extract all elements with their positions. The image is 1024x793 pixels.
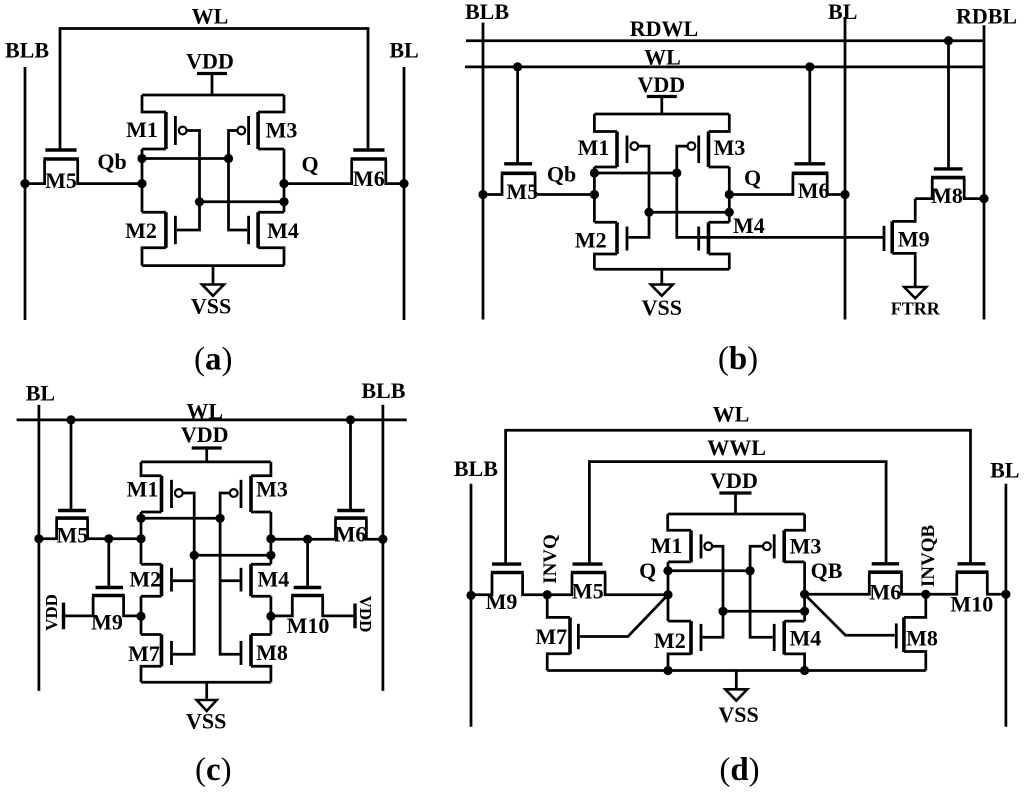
svg-text:M4: M4 (258, 567, 290, 592)
caption (d) (719, 752, 759, 788)
wire WL to M6 gate (b) (808, 67, 811, 164)
power VDD (b) (647, 97, 677, 115)
transistor M3 (d) (763, 514, 805, 562)
wire top rail (d) (668, 513, 805, 516)
wire top rail (b) (594, 113, 729, 116)
junction Q-A (d) (663, 566, 672, 575)
node INVQ (d) (543, 590, 552, 599)
junction BLB-M5 (b) (478, 190, 487, 199)
svg-text:BL: BL (990, 458, 1019, 483)
transistor M3 (c) (230, 462, 271, 512)
svg-text:M6: M6 (353, 166, 385, 191)
gate net M3-M4 (d) (750, 546, 773, 637)
svg-text:VSS: VSS (186, 709, 226, 734)
wire cross-coupling A (b) (594, 172, 676, 175)
transistor M4 (a) (249, 212, 284, 265)
svg-text:WL: WL (192, 4, 229, 29)
label BL (a) (389, 38, 418, 63)
wire WL (b) (465, 66, 984, 69)
label M7 (c) (128, 641, 160, 666)
label M3 (a) (266, 118, 298, 143)
label BL (b) (828, 0, 857, 24)
junction Qb-M5 (a) (137, 179, 146, 188)
svg-text:BL: BL (26, 381, 55, 406)
label VDD (d) (710, 468, 758, 493)
label VSS (c) (186, 709, 226, 734)
label M8 (c) (256, 640, 288, 665)
transistor M5 (b) (483, 164, 594, 195)
svg-text:VDD: VDD (181, 422, 229, 447)
transistor M9 (c) (64, 539, 142, 616)
junction gateR-A (b) (672, 168, 681, 177)
node Qb wire (b) (593, 167, 596, 222)
junction RDWL-M8gate (b) (944, 36, 953, 45)
label M3 (d) (790, 533, 822, 558)
junction Q-B (b) (725, 208, 734, 217)
junction gateR-A (c) (216, 514, 225, 523)
svg-text:M8: M8 (256, 640, 288, 665)
label M8 (d) (906, 625, 938, 650)
wire RDWL to M8 gate (b) (947, 41, 950, 169)
caption (c) (195, 752, 232, 788)
power VDD (c) (192, 448, 222, 462)
label M2 (d) (654, 628, 686, 653)
label M8 (b) (931, 183, 963, 208)
svg-text:M4: M4 (790, 625, 822, 650)
wire top rail (a) (142, 94, 284, 97)
wire BL (b) (844, 17, 847, 320)
svg-text:BL: BL (828, 0, 857, 24)
label M3 (c) (256, 477, 288, 502)
junction M10gate (c) (303, 535, 312, 544)
svg-text:M6: M6 (335, 522, 367, 547)
label M2 (b) (575, 228, 607, 253)
label BLB (b) (465, 0, 509, 24)
svg-text:M5: M5 (506, 179, 538, 204)
wire BLB (c) (382, 405, 385, 691)
wire cross-coupling B (d) (723, 610, 805, 613)
transistor M6 (a) (284, 150, 404, 184)
svg-text:VDD: VDD (710, 468, 758, 493)
svg-text:INVQB: INVQB (918, 525, 939, 588)
junction BL-M6 (a) (399, 179, 408, 188)
wire BLB (d) (470, 484, 473, 727)
node Q wire (a) (283, 149, 286, 212)
junction Q-M6 (b) (725, 190, 734, 199)
label M1 (a) (126, 117, 158, 142)
caption (b) (718, 341, 758, 377)
junction BL-M5 (c) (34, 534, 43, 543)
svg-text:BL: BL (389, 38, 418, 63)
label M7 (d) (535, 624, 567, 649)
gate net M1-M2 (b) (629, 146, 649, 237)
junction RDBL-M8 (b) (979, 194, 988, 203)
junction Qb-A (a) (137, 154, 146, 163)
svg-text:M3: M3 (266, 118, 298, 143)
svg-text:VSS: VSS (191, 294, 231, 319)
gate net M1-M2 (d) (703, 546, 724, 637)
label RDWL (b) (630, 16, 698, 41)
node QB wire (d) (803, 562, 806, 621)
transistor M6 (d) (805, 564, 926, 595)
transistor M1 (a) (142, 95, 187, 149)
transistor M2 (c) (141, 564, 194, 596)
wire cross-coupling A (a) (142, 157, 229, 160)
transistor M5 (c) (39, 511, 141, 539)
label M9 (b) (898, 227, 930, 252)
svg-text:M6: M6 (798, 178, 830, 203)
gate wire M7 diagonal (d) (580, 595, 668, 637)
ground VSS (d) (725, 671, 747, 701)
svg-text:WL: WL (644, 45, 681, 70)
svg-text:M5: M5 (45, 168, 77, 193)
label WL (a) (192, 4, 229, 29)
transistor M3 (a) (237, 95, 284, 149)
label M5 (d) (572, 579, 604, 604)
svg-text:M1: M1 (651, 533, 683, 558)
svg-text:M8: M8 (906, 625, 938, 650)
label BLB (a) (5, 38, 49, 63)
transistor M2 (a) (142, 212, 175, 265)
junction rail-M4 (d) (800, 666, 809, 675)
label M6 (d) (869, 579, 901, 604)
transistor M4 (c) (220, 564, 271, 596)
junction M9gate (c) (104, 534, 113, 543)
svg-text:VDD: VDD (637, 72, 685, 97)
node Q wire (d) (667, 562, 670, 621)
svg-text:M7: M7 (128, 641, 160, 666)
transistor M6 (c) (271, 511, 383, 540)
wire RDWL (b) (466, 39, 984, 42)
node Qb wire (c) (140, 512, 143, 564)
power VDD bar M10 (c) (353, 604, 356, 629)
caption (a) (194, 342, 233, 378)
label Q (d) (639, 558, 656, 583)
ground FTRR arrow (b) (904, 287, 926, 298)
svg-text:RDWL: RDWL (630, 16, 698, 41)
junction WL-M6gate (b) (805, 62, 814, 71)
gate net M3-M4 (a) (229, 131, 248, 231)
label VDD (c) (181, 422, 229, 447)
junction Q-B (a) (279, 197, 288, 206)
junction Q-B (c) (266, 551, 275, 560)
label FTRR (b) (891, 299, 941, 319)
svg-text:Qb: Qb (97, 149, 126, 174)
svg-text:M3: M3 (714, 135, 746, 160)
transistor M7 (c) (141, 635, 172, 683)
svg-text:WWL: WWL (707, 435, 766, 460)
svg-text:QB: QB (811, 558, 843, 583)
svg-text:FTRR: FTRR (891, 299, 941, 319)
gate wire M8 diagonal (d) (805, 594, 895, 635)
transistor M8 (c) (241, 635, 271, 683)
transistor M4 (b) (699, 222, 730, 269)
wire cross-coupling B (a) (200, 200, 285, 203)
label BL (d) (990, 458, 1019, 483)
junction BLB-M9 (d) (466, 591, 475, 600)
transistor M8 (d) (896, 594, 926, 670)
svg-text:M8: M8 (931, 183, 963, 208)
transistor M4 (d) (774, 621, 804, 670)
wire BL (a) (403, 67, 406, 320)
wire cross-coupling A (d) (668, 569, 750, 572)
label VSS (a) (191, 294, 231, 319)
wire WWL (d) (589, 462, 886, 564)
power VDD (a) (197, 74, 227, 96)
label M1 (d) (651, 533, 683, 558)
svg-text:BLB: BLB (361, 378, 405, 403)
wire BLB (b) (482, 23, 485, 320)
label M5 (b) (506, 179, 538, 204)
label VSS (b) (642, 295, 682, 320)
transistor M2 (d) (668, 621, 701, 670)
transistor M6 (b) (729, 164, 845, 195)
node M4-M8 wire (c) (270, 596, 273, 634)
svg-text:M3: M3 (256, 477, 288, 502)
junction WL-M5gate (c) (66, 415, 75, 424)
label M6 (b) (798, 178, 830, 203)
transistor M9 (d) (471, 564, 547, 595)
wire bottom rail (a) (142, 264, 284, 267)
label M5 (c) (57, 523, 89, 548)
label M6 (a) (353, 166, 385, 191)
svg-text:VSS: VSS (642, 295, 682, 320)
gate net M3-M4-M8 (c) (220, 493, 239, 654)
label Q (b) (744, 165, 761, 190)
label M3 (b) (714, 135, 746, 160)
power VDD bar M9 (c) (62, 603, 65, 630)
svg-text:(d): (d) (719, 752, 759, 788)
label BLB (c) (361, 378, 405, 403)
transistor M10 (d) (926, 564, 1006, 595)
label QB (d) (811, 558, 843, 583)
label INVQ (d) (540, 534, 561, 584)
svg-text:M4: M4 (733, 213, 765, 238)
junction WL-M6gate (c) (346, 415, 355, 424)
svg-text:VDD: VDD (186, 49, 234, 74)
label M4 (d) (790, 625, 822, 650)
svg-text:M10: M10 (287, 613, 330, 638)
ground VSS (c) (197, 682, 217, 711)
junction gateL-B (c) (190, 551, 199, 560)
label Qb (b) (547, 162, 576, 187)
svg-text:M6: M6 (869, 579, 901, 604)
transistor M9 (b) (884, 199, 915, 287)
wire BLB (a) (24, 67, 27, 320)
wire WL to M5 gate (c) (70, 420, 73, 511)
wire bottom rail (d) (547, 669, 926, 672)
junction rail-M2 (d) (663, 666, 672, 675)
svg-text:Q: Q (301, 152, 318, 177)
label WWL (d) (707, 435, 766, 460)
junction gateL-B (a) (195, 197, 204, 206)
junction Q-M6 (a) (279, 179, 288, 188)
label M4 (b) (733, 213, 765, 238)
label BL (c) (26, 381, 55, 406)
ground VSS (a) (202, 266, 224, 296)
label VDD M10 (c) (356, 596, 375, 633)
label M4 (a) (267, 218, 299, 243)
junction M2-M9 (c) (136, 612, 145, 621)
svg-text:BLB: BLB (5, 38, 49, 63)
svg-text:M2: M2 (575, 228, 607, 253)
junction WL-M5gate (b) (513, 62, 522, 71)
label VDD (a) (186, 49, 234, 74)
wire BL (d) (1005, 484, 1008, 727)
wire cross-coupling B (b) (649, 211, 729, 214)
svg-text:INVQ: INVQ (540, 534, 561, 584)
label INVQB (d) (918, 525, 939, 588)
svg-text:M1: M1 (126, 117, 158, 142)
transistor M3 (b) (688, 114, 730, 167)
svg-text:(b): (b) (718, 341, 758, 377)
svg-text:M7: M7 (535, 624, 567, 649)
svg-text:WL: WL (713, 402, 750, 427)
svg-text:RDBL: RDBL (956, 4, 1017, 29)
label M5 (a) (45, 168, 77, 193)
junction gateL-B (d) (718, 607, 727, 616)
label Q (a) (301, 152, 318, 177)
svg-text:WL: WL (186, 399, 223, 424)
svg-text:M10: M10 (950, 591, 993, 616)
svg-text:M5: M5 (57, 523, 89, 548)
svg-text:BLB: BLB (454, 456, 498, 481)
label WL (b) (644, 45, 681, 70)
transistor M5 (a) (25, 150, 142, 184)
junction Qb-M5 (c) (136, 534, 145, 543)
svg-text:Q: Q (639, 558, 656, 583)
label WL (d) (713, 402, 750, 427)
wire bottom rail (b) (594, 268, 729, 271)
transistor M5 (d) (547, 564, 668, 595)
svg-text:VDD: VDD (42, 594, 61, 631)
node M2-M7 wire (c) (140, 596, 143, 634)
label VSS (d) (718, 702, 758, 727)
wire WL (a) (60, 29, 368, 151)
transistor M7 (d) (547, 595, 578, 671)
label M2 (a) (125, 218, 157, 243)
svg-text:M2: M2 (125, 218, 157, 243)
gate net M1-M2-M7 (c) (173, 493, 194, 654)
junction BL-M10 (d) (1001, 590, 1010, 599)
svg-text:VSS: VSS (718, 702, 758, 727)
label BLB (d) (454, 456, 498, 481)
label M9 (c) (91, 610, 123, 635)
transistor M1 (b) (594, 114, 638, 167)
svg-text:M3: M3 (790, 533, 822, 558)
junction Qb-A (b) (590, 168, 599, 177)
junction Q-M5 (d) (663, 590, 672, 599)
junction gateL-B (b) (644, 208, 653, 217)
wire WL (d) (506, 430, 971, 564)
junction Qb-A (c) (136, 514, 145, 523)
gate net M3-M4 and M9 gate wire (b) (677, 146, 884, 237)
label M2 (c) (129, 567, 161, 592)
svg-text:M5: M5 (572, 579, 604, 604)
junction gateR-A (d) (746, 566, 755, 575)
svg-text:(c): (c) (195, 752, 232, 788)
ground VSS (b) (651, 269, 673, 296)
junction M4-M10 (c) (266, 612, 275, 621)
svg-text:M9: M9 (91, 610, 123, 635)
label M4 (c) (258, 567, 290, 592)
label M6 (c) (335, 522, 367, 547)
label VDD (b) (637, 72, 685, 97)
node Q wire (c) (270, 512, 273, 564)
label RDBL (b) (956, 4, 1017, 29)
svg-text:Q: Q (744, 165, 761, 190)
svg-text:M2: M2 (654, 628, 686, 653)
label M10 (c) (287, 613, 330, 638)
node Qb wire (a) (141, 149, 144, 212)
junction BLB-M6 (c) (378, 535, 387, 544)
svg-text:M2: M2 (129, 567, 161, 592)
svg-text:BLB: BLB (465, 0, 509, 24)
label M10 (d) (950, 591, 993, 616)
junction QB-M6 (d) (800, 590, 809, 599)
junction Q-M6 (c) (266, 534, 275, 543)
label M9 (d) (486, 589, 518, 614)
wire WL (c) (17, 419, 407, 422)
gate net M1-M2 (a) (177, 131, 200, 231)
power VDD (d) (719, 493, 751, 514)
svg-text:M4: M4 (267, 218, 299, 243)
label M1 (c) (127, 477, 159, 502)
wire top rail (c) (141, 461, 271, 464)
label WL (c) (186, 399, 223, 424)
junction BLB-M5 (a) (20, 179, 29, 188)
wire RDBL (b) (983, 25, 986, 319)
label VDD M9 (c) (42, 594, 61, 631)
wire bottom rail (c) (141, 681, 271, 684)
transistor M1 (d) (668, 514, 712, 562)
junction gateR-A (a) (224, 154, 233, 163)
svg-text:M9: M9 (486, 589, 518, 614)
wire WL to M6 gate (c) (349, 420, 352, 511)
wire cross-coupling B (c) (194, 554, 271, 557)
svg-text:M9: M9 (898, 227, 930, 252)
svg-text:M1: M1 (578, 135, 610, 160)
svg-text:Qb: Qb (547, 162, 576, 187)
transistor M2 (b) (594, 222, 627, 269)
transistor M1 (c) (141, 462, 183, 512)
wire WL to M5 gate (b) (516, 67, 519, 164)
wire cross-coupling A (c) (141, 517, 220, 520)
svg-text:(a): (a) (194, 342, 233, 378)
wire BL (c) (38, 405, 41, 691)
label Qb (a) (97, 149, 126, 174)
svg-text:VDD: VDD (356, 596, 375, 633)
transistor M10 (c) (271, 539, 355, 616)
node INVQB (d) (921, 590, 930, 599)
junction Qb-M5 (b) (590, 190, 599, 199)
junction BL-M6 (b) (840, 190, 849, 199)
transistor M8 (b) (915, 169, 984, 199)
svg-text:M1: M1 (127, 477, 159, 502)
label M1 (b) (578, 135, 610, 160)
junction QB-B (d) (800, 607, 809, 616)
node Q wire (b) (728, 167, 731, 222)
